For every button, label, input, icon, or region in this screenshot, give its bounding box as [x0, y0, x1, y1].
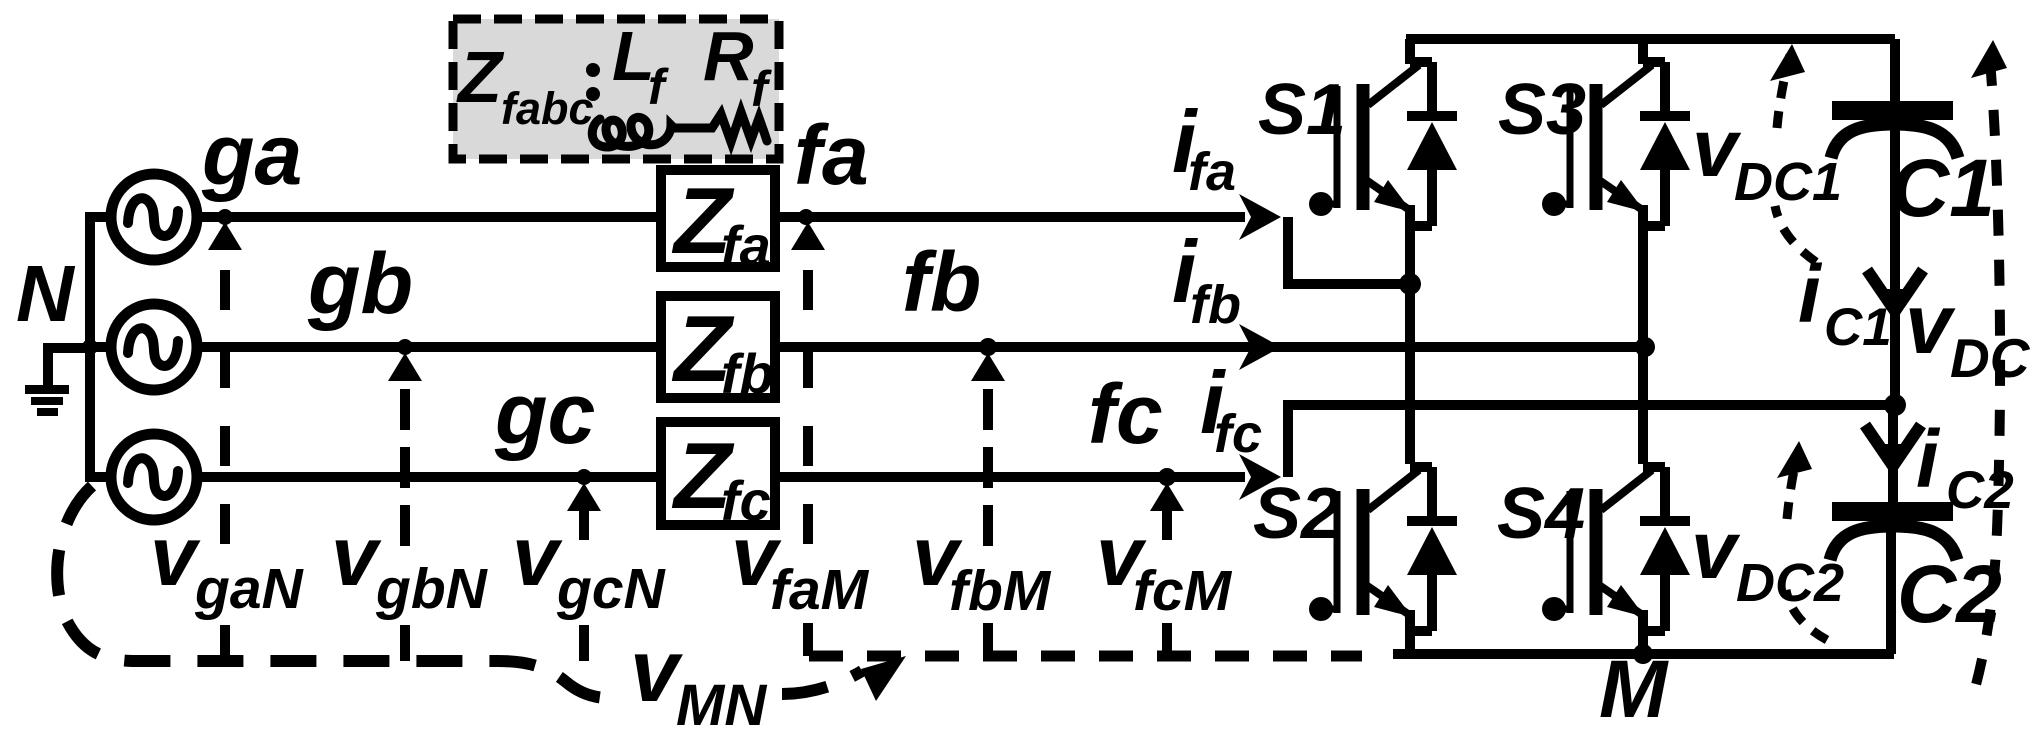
midpoint to C2 wire	[1888, 405, 1898, 502]
impedance box Zfc	[661, 422, 775, 532]
wire: source c left stub	[90, 472, 112, 482]
v_DC dashed measurement line	[1970, 60, 2000, 706]
svg-text:gaN: gaN	[194, 557, 305, 621]
svg-text:fc: fc	[1214, 404, 1262, 464]
svg-text:v: v	[512, 509, 563, 603]
svg-text:fa: fa	[1188, 142, 1236, 202]
AC source phase a	[90, 174, 197, 260]
svg-text:gb: gb	[307, 236, 413, 332]
C2 to bottom rail wire	[1886, 529, 1896, 654]
v_DC arrowhead	[1971, 40, 2007, 78]
impedance box Zfa	[661, 168, 775, 277]
svg-text:gc: gc	[494, 366, 595, 462]
legend inductor Lf symbol	[592, 117, 674, 147]
S2 emitter to bottom rail	[1405, 610, 1415, 653]
bottom rail M	[1393, 649, 1894, 659]
node gb dot	[397, 339, 413, 355]
node ga dot	[217, 209, 233, 225]
i_fb current arrowhead	[1239, 324, 1281, 370]
AC source phase b	[111, 304, 197, 390]
svg-text:N: N	[16, 249, 76, 338]
svg-text:C1: C1	[1890, 143, 1995, 234]
i_C1 arrowhead chevron	[1867, 270, 1923, 311]
IGBT S1	[1309, 62, 1457, 230]
svg-text:v: v	[331, 509, 382, 603]
dashed bus under f-phase measurements	[809, 651, 1362, 662]
leg2 vertical wire	[1638, 205, 1648, 464]
left source bus wire	[85, 212, 95, 482]
capacitor C2 flat plate	[1832, 502, 1953, 521]
v_fbM arrowhead	[971, 353, 1005, 381]
capacitor C1 flat plate	[1832, 101, 1953, 120]
capacitor C2 curved plate	[1830, 526, 1957, 560]
v_MN arrowhead	[861, 656, 906, 701]
wire phase c: source to Zfc box	[196, 472, 661, 482]
node fb dot	[979, 338, 997, 356]
v_faM dashed line	[803, 270, 813, 551]
v_gbN arrowhead	[388, 353, 422, 381]
i_fc current arrowhead	[1239, 454, 1281, 500]
svg-text:v: v	[1905, 277, 1956, 371]
svg-text:M: M	[1599, 644, 1669, 735]
wire phase a: source to Zfa box	[196, 212, 661, 222]
svg-text:DC1: DC1	[1734, 152, 1842, 212]
wire phase a: Zfa to converter	[775, 212, 1245, 222]
wire phase b: source to Zfb box	[196, 342, 661, 352]
svg-text:DC: DC	[1950, 327, 2031, 389]
svg-text:S2: S2	[1253, 474, 1341, 554]
node M dot	[1633, 644, 1653, 664]
C1 to midpoint wire	[1890, 127, 1900, 405]
DC link top wire	[1890, 39, 1900, 103]
svg-text:fb: fb	[902, 235, 981, 329]
v_DC1 arrowhead	[1770, 44, 1805, 81]
v_gaN arrowhead	[208, 222, 242, 250]
v_fcM dashed line	[1162, 505, 1172, 540]
v_gcN arrowhead	[567, 483, 601, 511]
node leg2 midpoint dot	[1635, 337, 1655, 357]
legend resistor Rf symbol	[674, 112, 767, 142]
v_DC2 arrowhead	[1777, 441, 1812, 478]
IGBT S2	[1309, 467, 1457, 635]
node N junction dot	[82, 339, 98, 355]
v_fbM dashed line	[983, 389, 993, 551]
capacitor C1 curved plate	[1831, 124, 1958, 158]
svg-text:faM: faM	[770, 558, 870, 622]
svg-text:gcN: gcN	[556, 557, 667, 621]
i_fa current arrowhead	[1239, 194, 1281, 240]
wire phase a step down to leg1	[1288, 217, 1405, 284]
v_gbN dashed line	[400, 389, 410, 551]
svg-text:Z: Z	[456, 38, 505, 118]
svg-text:fbM: fbM	[949, 559, 1052, 623]
IGBT S3	[1542, 62, 1690, 230]
S3 collector stub	[1638, 39, 1648, 64]
AC source phase c	[111, 434, 197, 520]
v_DC2 dashed measurement arc	[1786, 590, 1827, 640]
S1 collector stub	[1405, 39, 1415, 64]
svg-text:R: R	[703, 17, 754, 95]
svg-text:fb: fb	[1190, 275, 1241, 335]
svg-text:S1: S1	[1258, 70, 1346, 150]
i_C2 arrowhead chevron	[1865, 425, 1921, 466]
wire phase c step up to DC midpoint	[1288, 405, 1890, 477]
v_MN label	[630, 621, 767, 738]
svg-text:fabc: fabc	[501, 83, 594, 134]
svg-text:ga: ga	[201, 107, 302, 203]
v_DC1 dashed measurement arc	[1775, 206, 1816, 262]
node fa dot	[798, 209, 814, 225]
wire: source b left stub	[90, 342, 112, 352]
node fc dot	[1158, 468, 1176, 486]
svg-text:v: v	[150, 509, 201, 603]
svg-text:MN: MN	[676, 673, 767, 738]
svg-text:v: v	[1691, 505, 1741, 596]
v_gaN dashed line	[220, 270, 230, 551]
svg-text:DC2: DC2	[1736, 553, 1844, 613]
svg-text:gbN: gbN	[375, 557, 489, 621]
svg-text:S3: S3	[1498, 70, 1586, 150]
v_MN dashed arrow to M bus	[782, 671, 862, 694]
node gc dot	[576, 469, 592, 485]
svg-text:C1: C1	[1824, 298, 1892, 357]
S4 emitter to bottom rail	[1638, 610, 1648, 654]
labels v_faM v_fbM v_fcM	[731, 509, 870, 622]
leg1 vertical wire	[1405, 205, 1415, 464]
labels v_gaN v_gbN v_gcN	[150, 509, 305, 621]
svg-text:fcM: fcM	[1133, 559, 1233, 623]
wire phase b: Zfb to converter leg2	[775, 342, 1643, 352]
node leg1 midpoint dot	[1399, 273, 1421, 295]
ground	[25, 348, 90, 416]
v_gcN dashed line	[579, 505, 589, 540]
v_faM arrowhead	[791, 222, 825, 250]
node DC midpoint dot	[1884, 394, 1906, 416]
Zfabc legend dashed gray box	[453, 19, 779, 159]
wire phase c: Zfc to DC midpoint	[775, 472, 1245, 482]
svg-text:fa: fa	[721, 214, 771, 277]
dashed loop from N to bus (v_MN reference)	[57, 486, 606, 698]
IGBT S4	[1542, 467, 1690, 635]
converter top rail	[1406, 34, 1895, 44]
v_fcM arrowhead	[1150, 483, 1184, 511]
svg-text:S4: S4	[1497, 474, 1585, 554]
svg-text:i: i	[1916, 414, 1941, 505]
svg-text:fb: fb	[721, 342, 774, 405]
svg-text:fa: fa	[794, 108, 869, 202]
impedance box Zfb	[661, 296, 775, 405]
svg-text:fc: fc	[1088, 367, 1163, 461]
